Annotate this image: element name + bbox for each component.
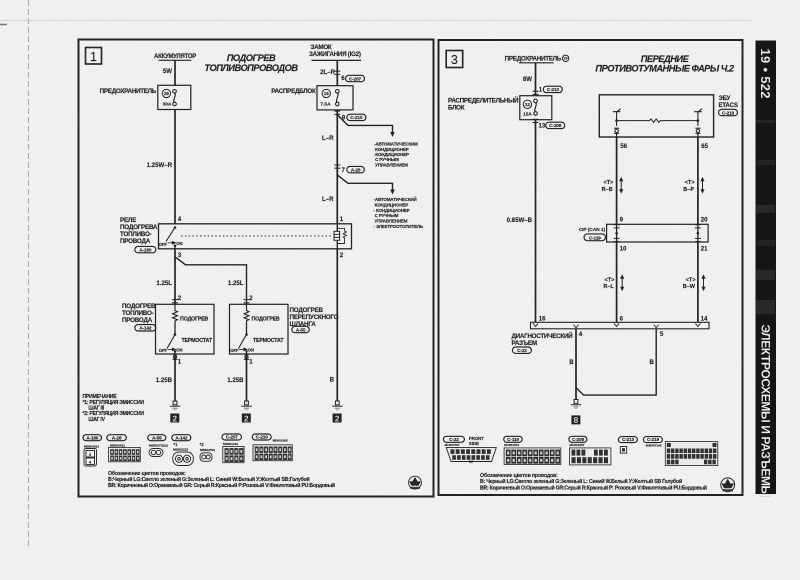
connector A-28 pill <box>347 166 365 173</box>
thermostat switch blade <box>239 335 247 349</box>
wire ignition to distblock <box>336 60 338 86</box>
wire ETACS left down to CIP <box>616 137 618 224</box>
thermostat switch blade <box>167 335 175 349</box>
ETACS left pin connector <box>614 128 619 133</box>
branch wire to heater2 <box>175 257 247 305</box>
fuse number circle 16 <box>322 89 330 97</box>
fuse symbol F3 <box>534 99 538 115</box>
connector drawing C-213 <box>620 447 626 454</box>
connector pill A-28 bottom <box>107 435 127 442</box>
relay switch contact dot pin4 <box>174 226 177 229</box>
connector inline heater2 top <box>244 300 250 303</box>
fuse number circle 26 <box>162 89 170 97</box>
diag pin chevron 4 <box>574 325 579 328</box>
page edge dark dash <box>0 24 7 26</box>
connector pill A-55 bottom <box>148 435 166 442</box>
connector pill A-180 bottom <box>83 435 102 442</box>
ground 3 <box>332 401 342 410</box>
ETACS left transistor element <box>613 109 621 126</box>
branch wire to AC arrow 1 <box>337 115 392 133</box>
connector inline heater1 bottom <box>172 354 177 359</box>
ground ref box 8 <box>571 415 580 425</box>
distribution block box left <box>317 86 353 110</box>
connector symbol C-207 inline <box>334 71 340 74</box>
heater box A-142 <box>156 304 215 354</box>
mitsubishi logo right <box>721 478 735 492</box>
double arrow right lower <box>702 276 705 291</box>
wire battery to fuse <box>174 60 176 86</box>
diag pin chevron 6 <box>614 323 619 326</box>
connector C-208 pill <box>546 122 565 129</box>
wire relay pin2 down <box>336 249 338 401</box>
connector C-210 pill <box>347 114 366 121</box>
ETACS internal resistor link <box>617 119 698 122</box>
relay box A-180 <box>159 224 352 249</box>
CIP right wire through <box>697 224 699 242</box>
fuse number circle 20 <box>562 55 568 61</box>
panel number 3 box <box>446 51 463 68</box>
connector A-142 pill <box>135 325 156 332</box>
diag pin chevron 5 <box>654 325 659 328</box>
connector C-213 pill <box>543 86 562 93</box>
wire CIP left down to diag <box>616 242 618 322</box>
connector C-22 pill <box>512 347 531 354</box>
wire heater2 to ground <box>246 354 248 401</box>
connector symbol C-208 inline <box>533 119 539 122</box>
CIP left wire through <box>616 224 618 242</box>
mitsubishi logo left <box>409 476 422 489</box>
wire fuse to relay pin4 <box>174 110 176 224</box>
CIP CAN1 box <box>607 224 709 242</box>
connector pill C-207 bottom <box>222 434 242 441</box>
connector drawing A-180 <box>84 444 99 466</box>
relay coil hatched block <box>334 231 340 240</box>
ground 1 <box>170 401 180 410</box>
connector C-207 pill <box>346 75 365 82</box>
diagnostic connector box <box>531 322 710 329</box>
panel number 1 box <box>86 48 102 65</box>
connector pill A-142 bottom <box>172 435 191 442</box>
connector inline heater1 top <box>172 300 178 303</box>
wire heater1 to ground <box>174 354 176 401</box>
distribution block box right <box>520 96 552 120</box>
wire relay pin3 to heater1 <box>174 249 176 304</box>
connector pill C-208 bottom <box>569 436 587 443</box>
arrowhead 2 <box>390 190 395 195</box>
arrowhead 1 <box>390 132 395 137</box>
connector pill C-119 bottom <box>504 436 523 443</box>
left panel frame <box>79 40 434 497</box>
wire distblock to diag connector <box>535 120 537 323</box>
heater box A-55 <box>230 304 289 354</box>
connector pill C-219 bottom <box>643 437 662 444</box>
fuse symbol F1 <box>173 90 177 106</box>
diag pin chevron 14 <box>695 323 700 326</box>
fuse symbol F2 <box>336 90 340 106</box>
ETACS right transistor element <box>694 109 702 126</box>
connector symbol C-213 inline <box>533 91 539 94</box>
diag pin chevron 16 <box>533 323 538 326</box>
double arrow left lower <box>621 276 624 291</box>
wire diag pin4 to ground <box>575 329 577 400</box>
double arrow right upper <box>701 178 704 193</box>
connector inline heater2 bottom <box>244 354 249 359</box>
connector pill C-210 bottom <box>252 434 271 441</box>
branch wire to AC arrow 2 <box>337 175 392 190</box>
connector symbol C-210 inline <box>334 111 340 114</box>
relay switch blade <box>166 228 175 242</box>
ground ref box 2 first <box>170 414 179 424</box>
connector A-55 pill <box>292 326 310 333</box>
thermostat ON arrow <box>168 348 176 351</box>
relay switch pivot dot pin3 <box>174 245 177 248</box>
wire diag pin5 down <box>576 329 656 395</box>
page edge line vertical <box>28 0 30 548</box>
right panel frame <box>439 40 743 495</box>
connector pill C-213 bottom <box>618 437 637 444</box>
relay switch ON arrow <box>168 242 176 245</box>
connector C-219 pill <box>719 109 738 116</box>
connector symbol A-28 inline <box>334 165 340 168</box>
connector A-180 pill <box>135 246 156 253</box>
wire distblock down <box>336 110 338 224</box>
fuse bus bar <box>519 62 554 64</box>
ground ref box 2 third <box>333 414 342 424</box>
sidebar black bar <box>756 41 777 495</box>
heater wire mid <box>246 323 248 335</box>
page edge line horizontal <box>0 20 753 22</box>
wire CIP right down to diag <box>697 242 699 322</box>
relay coil parallel resistor <box>337 228 346 243</box>
relay dashed control line <box>181 235 331 237</box>
ground 2 <box>241 401 251 410</box>
fuse box A <box>158 85 191 109</box>
connector C-119 pill <box>584 234 606 241</box>
double arrow left upper <box>620 178 623 193</box>
heater resistor <box>173 304 178 322</box>
ground ref box 2 second <box>242 414 251 424</box>
sidebar noise texture <box>756 120 775 314</box>
thermostat ON arrow <box>239 348 247 351</box>
wire ETACS right down to CIP <box>697 137 699 224</box>
ETACS box <box>599 95 713 137</box>
ground right panel <box>571 400 581 409</box>
heater wire mid <box>174 323 176 335</box>
wire fuse to distblock right <box>535 63 537 96</box>
ignition bus bar <box>312 59 362 61</box>
fuse number circle 12 <box>523 100 531 108</box>
heater resistor <box>244 304 249 322</box>
connector pill C-22 bottom <box>443 436 464 443</box>
ETACS right pin connector <box>695 128 700 133</box>
battery bus bar <box>159 59 192 61</box>
